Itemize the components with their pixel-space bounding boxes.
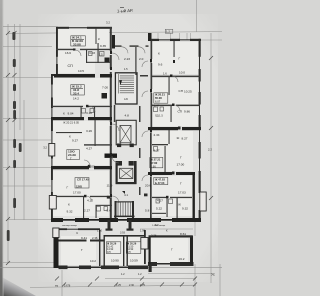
svg-text:16.2: 16.2: [179, 257, 185, 261]
svg-text:1-ый АР.: 1-ый АР.: [117, 8, 133, 14]
svg-text:10.0: 10.0: [179, 71, 185, 75]
svg-text:17.00: 17.00: [73, 191, 81, 195]
svg-text:4.27: 4.27: [154, 149, 160, 153]
svg-text:1.90: 1.90: [97, 230, 102, 233]
svg-text:4.27: 4.27: [86, 147, 92, 151]
svg-text:2.27: 2.27: [84, 209, 90, 213]
svg-text:11.9: 11.9: [107, 183, 113, 187]
svg-text:10.5: 10.5: [78, 69, 84, 73]
svg-text:СП: СП: [179, 89, 183, 93]
svg-text:СП: СП: [127, 251, 131, 254]
svg-text:8.27: 8.27: [182, 137, 188, 141]
svg-text:сюноща окюща: сюноща окюща: [62, 225, 78, 227]
svg-text:1.2: 1.2: [138, 272, 142, 276]
svg-text:9.32: 9.32: [182, 207, 188, 211]
svg-text:К: К: [98, 37, 100, 41]
svg-text:К: К: [69, 134, 71, 138]
svg-text:20.6: 20.6: [145, 183, 151, 187]
svg-text:4.8: 4.8: [125, 114, 130, 118]
svg-text:8.61: 8.61: [180, 232, 186, 236]
svg-text:9.04: 9.04: [68, 112, 74, 116]
svg-text:К: К: [68, 203, 70, 207]
svg-text:СП: СП: [68, 64, 74, 68]
svg-text:Ж 47.03: Ж 47.03: [154, 178, 165, 182]
svg-text:10.2: 10.2: [90, 259, 96, 263]
svg-text:65.08: 65.08: [155, 96, 162, 100]
svg-text:1.6: 1.6: [163, 72, 167, 76]
svg-text:5.8: 5.8: [145, 208, 150, 212]
svg-text:9.35: 9.35: [100, 44, 106, 48]
svg-text:33.88: 33.88: [73, 42, 81, 46]
svg-text:Ж 27.21: Ж 27.21: [150, 158, 161, 162]
svg-text:3.26: 3.26: [86, 129, 92, 133]
svg-text:1.42Ю окюща: 1.42Ю окюща: [152, 225, 166, 227]
svg-text:9.41: 9.41: [81, 236, 87, 240]
svg-text:17.00: 17.00: [177, 163, 185, 167]
svg-text:СП: СП: [107, 251, 111, 254]
svg-text:Б 47.03: Б 47.03: [155, 181, 165, 185]
svg-text:1.5: 1.5: [124, 67, 128, 71]
svg-text:ЛД 1.5: ЛД 1.5: [155, 114, 163, 118]
svg-text:5.676: 5.676: [64, 284, 71, 287]
svg-text:7.00: 7.00: [102, 86, 108, 90]
svg-text:3.10: 3.10: [86, 111, 92, 115]
svg-text:10.59: 10.59: [130, 259, 138, 263]
svg-text:2.36: 2.36: [151, 233, 157, 237]
svg-text:А.Б: А.Б: [124, 98, 128, 101]
svg-text:16.6: 16.6: [65, 51, 71, 55]
svg-text:10.90: 10.90: [111, 259, 119, 263]
svg-text:12Ю: 12Ю: [76, 185, 82, 189]
svg-text:9.27: 9.27: [72, 138, 78, 142]
svg-text:9.32: 9.32: [67, 210, 73, 214]
svg-text:К: К: [158, 52, 160, 56]
svg-text:5.22: 5.22: [156, 207, 162, 211]
svg-text:10.25: 10.25: [184, 90, 192, 94]
svg-text:1.90: 1.90: [140, 230, 145, 233]
svg-text:2.0: 2.0: [139, 57, 144, 61]
svg-text:4.25: 4.25: [116, 284, 121, 287]
svg-text:2.23: 2.23: [124, 57, 130, 61]
svg-text:2.34: 2.34: [154, 133, 160, 137]
svg-text:К: К: [63, 112, 65, 116]
svg-text:СП 17.45: СП 17.45: [77, 178, 89, 182]
svg-text:4.27: 4.27: [87, 199, 93, 203]
svg-text:Ус: Ус: [211, 273, 215, 277]
svg-text:6.07: 6.07: [155, 99, 161, 103]
svg-text:3.2: 3.2: [106, 21, 110, 25]
svg-text:14.2: 14.2: [73, 97, 79, 101]
svg-text:2.30: 2.30: [129, 284, 134, 287]
svg-text:хю: хю: [55, 284, 58, 287]
svg-text:Ж: Ж: [177, 136, 180, 140]
svg-text:17.03: 17.03: [178, 191, 186, 195]
svg-text:2.36: 2.36: [92, 236, 98, 240]
svg-text:Ж 20.21: Ж 20.21: [154, 93, 165, 97]
svg-text:3.2: 3.2: [43, 146, 47, 150]
svg-text:57.82: 57.82: [151, 161, 158, 165]
svg-text:1.2: 1.2: [121, 272, 125, 276]
svg-text:1.66: 1.66: [151, 164, 157, 168]
svg-text:Ж 20.21 6.05: Ж 20.21 6.05: [63, 120, 79, 124]
svg-text:3.93: 3.93: [120, 232, 125, 235]
svg-text:2.2: 2.2: [208, 148, 212, 152]
svg-text:9.6: 9.6: [158, 63, 163, 67]
svg-text:33.4: 33.4: [73, 91, 79, 95]
svg-text:9.86: 9.86: [184, 110, 190, 114]
svg-text:Ж: Ж: [178, 203, 181, 207]
